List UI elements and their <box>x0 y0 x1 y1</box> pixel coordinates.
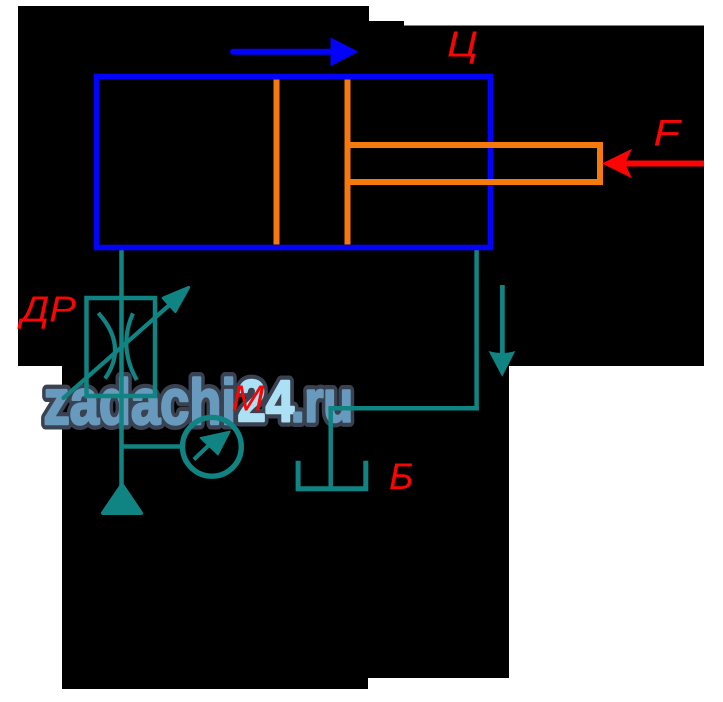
svg-text:F: F <box>654 113 683 154</box>
motion arrow head <box>331 37 359 66</box>
gauge M dial circle <box>183 417 242 476</box>
piston rod <box>348 145 601 182</box>
force arrow head <box>602 149 632 178</box>
wire: cylinder left port to throttle and filter <box>119 249 124 486</box>
throttle venturi arc right <box>126 313 136 380</box>
piston left face <box>274 80 280 245</box>
watermark letters bold overlay <box>44 366 354 438</box>
force arrow F shaft <box>624 161 704 167</box>
wire: cylinder right port down <box>474 249 479 410</box>
piston right face <box>345 80 351 245</box>
wire: return line to tank <box>328 406 479 411</box>
throttle adjustment arrow shaft <box>64 305 171 399</box>
wire: pipe into tank <box>328 408 333 486</box>
flow arrow down (return line) shaft <box>500 285 505 355</box>
tank B <box>298 461 366 489</box>
svg-text:Ц: Ц <box>447 23 478 64</box>
svg-text:Б: Б <box>389 455 413 497</box>
gauge needle arrowhead <box>200 431 230 454</box>
flow arrow down head <box>489 351 516 377</box>
wire: tee to gauge <box>122 444 183 449</box>
filter triangle below throttle <box>103 485 141 513</box>
watermark zadachi24.ru <box>44 366 354 438</box>
throttle adjustment arrowhead <box>163 287 188 311</box>
gauge needle <box>194 446 208 460</box>
throttle valve DR body <box>87 298 156 396</box>
throttle venturi arc left <box>98 313 115 379</box>
svg-text:.ru: .ru <box>291 370 353 435</box>
svg-text:ДР: ДР <box>17 289 76 330</box>
svg-text:zadachi: zadachi <box>44 366 237 438</box>
motion arrow (blue) shaft <box>233 49 333 55</box>
svg-text:М: М <box>232 378 265 419</box>
cylinder C body <box>97 77 491 248</box>
